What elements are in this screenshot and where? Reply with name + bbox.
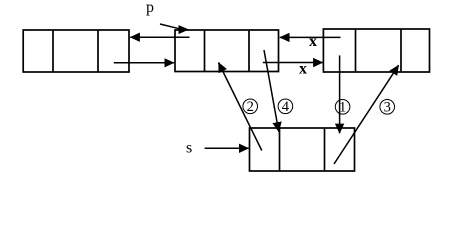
svg-text:x: x <box>299 60 307 77</box>
svg-text:1: 1 <box>339 100 346 116</box>
svg-text:s: s <box>186 140 192 157</box>
svg-text:2: 2 <box>247 99 254 115</box>
svg-text:x: x <box>309 33 317 50</box>
svg-text:3: 3 <box>384 100 391 116</box>
svg-text:p: p <box>146 0 154 16</box>
svg-text:4: 4 <box>282 99 290 115</box>
